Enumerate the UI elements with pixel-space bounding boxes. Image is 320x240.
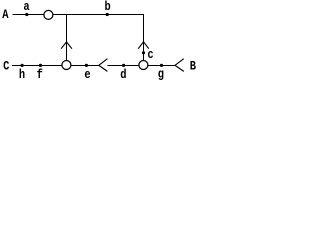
wire top rail (13, 14, 145, 16)
arrowhead up on right vertical (138, 42, 149, 49)
svg-text:C: C (3, 58, 9, 73)
svg-text:A: A (2, 7, 9, 22)
wire left vertical drop (66, 15, 68, 65)
arrowhead left on bottom rail (mid) (99, 59, 108, 72)
junction dot f (39, 64, 42, 67)
junction dot a (25, 13, 28, 16)
junction dot d (122, 64, 125, 67)
svg-text:h: h (19, 67, 25, 82)
svg-text:b: b (105, 0, 111, 15)
svg-text:g: g (158, 66, 164, 81)
node circle bottom-left (62, 61, 71, 70)
svg-text:B: B (190, 58, 196, 73)
junction dot b (106, 13, 109, 16)
node circle bottom-right (139, 61, 148, 70)
arrowhead left on bottom rail (right) (175, 59, 184, 72)
svg-text:a: a (23, 0, 29, 15)
svg-text:e: e (84, 67, 90, 82)
svg-text:d: d (120, 67, 126, 82)
svg-text:c: c (147, 47, 153, 62)
svg-text:f: f (37, 67, 43, 82)
junction dot g (160, 64, 163, 67)
wire bottom rail left segment C to mid arrow tip (12, 65, 99, 67)
wire right vertical drop (143, 15, 145, 65)
node circle top (44, 10, 53, 19)
junction dot e (85, 64, 88, 67)
junction dot h (21, 64, 24, 67)
wire bottom rail right segment arrow to right arrow tip (107, 65, 175, 67)
junction dot c (142, 51, 145, 54)
arrowhead up on left vertical (61, 42, 72, 49)
